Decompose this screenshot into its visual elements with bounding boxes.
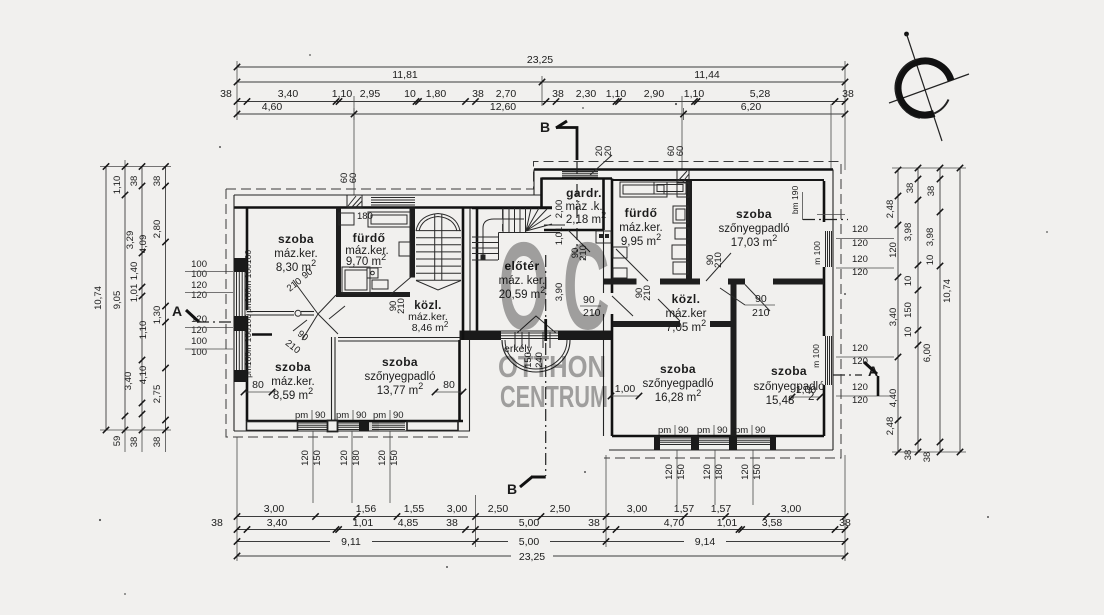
svg-text:120: 120 — [852, 343, 868, 354]
svg-text:3,98: 3,98 — [903, 223, 914, 242]
svg-text:60: 60 — [675, 146, 686, 157]
svg-text:6,00: 6,00 — [922, 344, 933, 363]
svg-text:120: 120 — [191, 325, 207, 336]
svg-text:20: 20 — [603, 146, 614, 157]
svg-text:szoba: szoba — [275, 360, 311, 374]
svg-text:120: 120 — [740, 464, 751, 480]
svg-text:38: 38 — [903, 450, 914, 461]
svg-text:120: 120 — [664, 464, 675, 480]
svg-text:2,48: 2,48 — [885, 417, 896, 436]
svg-text:1,01: 1,01 — [129, 284, 140, 303]
svg-text:gardr.: gardr. — [566, 186, 602, 200]
svg-text:150: 150 — [389, 450, 400, 466]
svg-text:100: 100 — [243, 314, 253, 328]
svg-text:120: 120 — [339, 450, 350, 466]
svg-text:90: 90 — [315, 410, 326, 421]
svg-text:pm: pm — [735, 425, 748, 436]
svg-text:fürdő: fürdő — [353, 231, 386, 245]
svg-text:1,00: 1,00 — [796, 384, 817, 396]
svg-text:90: 90 — [717, 425, 728, 436]
svg-text:3,00: 3,00 — [264, 503, 285, 515]
svg-text:15,48: 15,48 — [766, 395, 795, 407]
svg-text:90: 90 — [356, 410, 367, 421]
svg-text:szoba: szoba — [736, 207, 772, 221]
svg-text:1,10: 1,10 — [138, 321, 149, 340]
svg-text:23,25: 23,25 — [527, 54, 553, 66]
svg-text:6,20: 6,20 — [741, 101, 762, 113]
svg-text:4,60: 4,60 — [262, 101, 283, 113]
svg-text:1,80: 1,80 — [426, 88, 447, 100]
svg-text:100: 100 — [243, 352, 253, 366]
svg-text:38: 38 — [129, 176, 140, 187]
svg-text:3,29: 3,29 — [125, 231, 136, 250]
svg-text:100: 100 — [243, 250, 253, 264]
svg-text:10: 10 — [903, 276, 914, 287]
svg-text:38: 38 — [152, 437, 163, 448]
svg-text:150: 150 — [903, 302, 914, 318]
svg-text:2,48: 2,48 — [885, 200, 896, 219]
svg-text:szőnyegpadló: szőnyegpadló — [643, 378, 714, 390]
svg-text:2,70: 2,70 — [496, 88, 517, 100]
svg-text:38: 38 — [588, 517, 600, 529]
svg-text:m 100: m 100 — [811, 344, 821, 368]
svg-text:120: 120 — [852, 238, 868, 249]
svg-text:m 100: m 100 — [243, 264, 253, 288]
svg-text:60: 60 — [348, 173, 359, 184]
svg-text:2,80: 2,80 — [152, 220, 163, 239]
svg-text:80: 80 — [252, 379, 264, 391]
svg-text:3,00: 3,00 — [447, 503, 468, 515]
svg-text:38: 38 — [552, 88, 564, 100]
svg-text:5,00: 5,00 — [519, 536, 540, 548]
svg-text:szoba: szoba — [660, 362, 696, 376]
svg-text:pm: pm — [373, 410, 386, 421]
svg-text:11,81: 11,81 — [392, 69, 418, 81]
svg-text:90: 90 — [393, 410, 404, 421]
svg-text:pm: pm — [295, 410, 308, 421]
svg-text:B: B — [540, 119, 550, 135]
svg-text:38: 38 — [839, 517, 851, 529]
svg-text:m 100: m 100 — [812, 241, 822, 265]
svg-text:150: 150 — [752, 464, 763, 480]
svg-text:38: 38 — [152, 176, 163, 187]
svg-text:120: 120 — [852, 224, 868, 235]
svg-text:1,10: 1,10 — [684, 88, 705, 100]
svg-text:pm: pm — [243, 366, 253, 378]
svg-text:4,40: 4,40 — [888, 389, 899, 408]
svg-text:OC: OC — [499, 216, 624, 355]
svg-text:1,00: 1,00 — [615, 383, 636, 395]
svg-text:210: 210 — [713, 252, 724, 268]
svg-text:bm 190: bm 190 — [790, 186, 800, 215]
svg-text:3,40: 3,40 — [123, 372, 134, 391]
svg-text:38: 38 — [905, 183, 916, 194]
svg-text:150: 150 — [676, 464, 687, 480]
svg-text:38: 38 — [926, 186, 937, 197]
svg-text:A: A — [172, 303, 182, 319]
svg-text:100: 100 — [191, 336, 207, 347]
svg-text:11,44: 11,44 — [694, 69, 720, 81]
svg-text:m 100: m 100 — [243, 328, 253, 352]
svg-text:90: 90 — [678, 425, 689, 436]
svg-text:10: 10 — [925, 255, 936, 266]
svg-text:2,75: 2,75 — [152, 385, 163, 404]
svg-text:fürdő: fürdő — [625, 206, 658, 220]
svg-text:3,40: 3,40 — [278, 88, 299, 100]
svg-text:120: 120 — [300, 450, 311, 466]
svg-text:38: 38 — [922, 452, 933, 463]
svg-text:pm: pm — [336, 410, 349, 421]
svg-text:szoba: szoba — [278, 232, 314, 246]
svg-text:1,40: 1,40 — [129, 262, 140, 281]
svg-text:120: 120 — [852, 382, 868, 393]
svg-text:1,30: 1,30 — [152, 306, 163, 325]
svg-text:12,60: 12,60 — [490, 101, 516, 113]
svg-text:120: 120 — [888, 242, 899, 258]
svg-text:pm: pm — [697, 425, 710, 436]
svg-text:180: 180 — [357, 211, 373, 222]
svg-text:120: 120 — [702, 464, 713, 480]
svg-text:180: 180 — [714, 464, 725, 480]
svg-text:120: 120 — [852, 395, 868, 406]
svg-text:10: 10 — [404, 88, 416, 100]
svg-text:38: 38 — [446, 517, 458, 529]
svg-text:90: 90 — [755, 425, 766, 436]
svg-text:8,46 m2: 8,46 m2 — [412, 320, 449, 334]
svg-text:38: 38 — [211, 517, 223, 529]
svg-text:CENTRUM: CENTRUM — [500, 379, 608, 414]
svg-text:120: 120 — [852, 254, 868, 265]
svg-text:210: 210 — [642, 285, 653, 301]
svg-text:pm: pm — [658, 425, 671, 436]
svg-text:3,40: 3,40 — [267, 517, 288, 529]
svg-text:210: 210 — [752, 307, 770, 319]
svg-text:120: 120 — [852, 267, 868, 278]
svg-text:120: 120 — [377, 450, 388, 466]
svg-text:9,14: 9,14 — [695, 536, 716, 548]
svg-text:4,85: 4,85 — [398, 517, 419, 529]
svg-text:4,10: 4,10 — [138, 366, 149, 385]
svg-text:180: 180 — [351, 450, 362, 466]
svg-text:5,00: 5,00 — [519, 517, 540, 529]
svg-text:szoba: szoba — [382, 355, 418, 369]
svg-text:2,50: 2,50 — [488, 503, 509, 515]
svg-text:10,74: 10,74 — [942, 279, 953, 303]
svg-text:120: 120 — [191, 290, 207, 301]
svg-text:38: 38 — [220, 88, 232, 100]
svg-text:210: 210 — [396, 298, 407, 314]
svg-text:100: 100 — [191, 269, 207, 280]
svg-text:59: 59 — [112, 436, 123, 447]
svg-text:közl.: közl. — [672, 292, 701, 306]
svg-text:B: B — [507, 481, 517, 497]
svg-text:80: 80 — [443, 379, 455, 391]
svg-text:3,00: 3,00 — [781, 503, 802, 515]
svg-text:2,90: 2,90 — [644, 88, 665, 100]
svg-text:38: 38 — [129, 437, 140, 448]
svg-text:1,01: 1,01 — [717, 517, 738, 529]
svg-text:1,10: 1,10 — [112, 176, 123, 195]
svg-text:23,25: 23,25 — [519, 551, 545, 563]
svg-text:10,74: 10,74 — [93, 286, 104, 310]
svg-text:szőnyegpadló: szőnyegpadló — [365, 371, 436, 383]
svg-text:2,30: 2,30 — [576, 88, 597, 100]
svg-text:3,00: 3,00 — [627, 503, 648, 515]
svg-text:150: 150 — [312, 450, 323, 466]
svg-text:máz .k.: máz .k. — [565, 201, 602, 213]
svg-text:9,05: 9,05 — [112, 291, 123, 310]
svg-text:1,01: 1,01 — [353, 517, 374, 529]
svg-text:2,50: 2,50 — [550, 503, 571, 515]
svg-text:2,95: 2,95 — [360, 88, 381, 100]
svg-text:90: 90 — [755, 293, 767, 305]
svg-text:100: 100 — [243, 288, 253, 302]
svg-text:szoba: szoba — [771, 364, 807, 378]
svg-text:9,11: 9,11 — [341, 536, 361, 548]
svg-text:1,55: 1,55 — [404, 503, 425, 515]
svg-text:1,10: 1,10 — [606, 88, 627, 100]
svg-text:10: 10 — [903, 327, 914, 338]
svg-text:pm: pm — [243, 301, 253, 313]
svg-text:3,98: 3,98 — [925, 228, 936, 247]
svg-text:3,40: 3,40 — [888, 308, 899, 327]
svg-text:5,28: 5,28 — [750, 88, 771, 100]
svg-text:szőnyegpadló: szőnyegpadló — [719, 223, 790, 235]
